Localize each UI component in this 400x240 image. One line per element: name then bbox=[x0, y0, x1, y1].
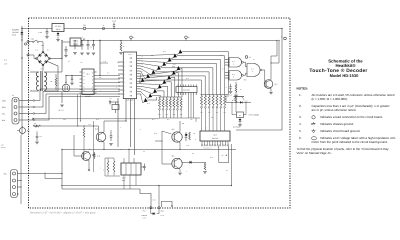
wire +V rail drop at x277 bbox=[271, 41, 277, 64]
capacitor C44 near gates bbox=[229, 84, 231, 91]
crystal Y1 near U2 bbox=[112, 105, 119, 110]
svg-text:TONE DEC: TONE DEC bbox=[183, 90, 190, 92]
svg-text:IC-4: IC-4 bbox=[251, 69, 254, 71]
svg-text:TP1: TP1 bbox=[83, 24, 86, 27]
zener diode D90 below border bbox=[150, 209, 152, 214]
wire Q3 emitter down bbox=[103, 142, 105, 149]
wire regulator output +5V rail bbox=[64, 28, 83, 30]
diode D43 below relay bbox=[239, 118, 241, 120]
svg-text:Heathkit®: Heathkit® bbox=[335, 63, 356, 68]
wire long horizontal mid-bottom bbox=[62, 148, 236, 150]
wires chain B feed from U2 pins bbox=[141, 94, 143, 103]
wire U-loop below IC3 bbox=[219, 146, 229, 163]
wire x21 bottom vertical bbox=[20, 135, 22, 204]
svg-text:C-51: C-51 bbox=[186, 145, 189, 147]
svg-text:+12: +12 bbox=[80, 62, 83, 64]
svg-text:Q-8: Q-8 bbox=[230, 94, 233, 96]
svg-text:Indicates circuit board ground: Indicates circuit board ground. bbox=[320, 129, 360, 133]
resistor bank R31-R37 bbox=[201, 94, 229, 96]
NAND gate IC4B bbox=[229, 71, 242, 81]
capacitor C101 at regulator input bbox=[46, 29, 49, 37]
wire long feedback y118.8 bbox=[33, 118, 160, 120]
svg-text:are in pF, unless otherwise no: are in pF, unless otherwise noted. bbox=[312, 108, 357, 112]
wire T1 secondary top lead bbox=[44, 71, 62, 73]
svg-text:R-31: R-31 bbox=[96, 119, 99, 121]
NAND gate IC4C bbox=[247, 64, 260, 77]
capacitor C103 below rail bbox=[74, 41, 77, 50]
svg-text:D-11: D-11 bbox=[163, 51, 166, 53]
wire bridge bottom to T1 bbox=[42, 65, 44, 71]
test point TP1 circle bbox=[83, 27, 86, 30]
svg-text:D-1: D-1 bbox=[36, 50, 38, 52]
switch SW1 on AC line bbox=[29, 41, 33, 43]
transistor Q6 bbox=[172, 158, 182, 168]
fuse F1 marks bbox=[24, 43, 26, 45]
svg-text:IC-3: IC-3 bbox=[213, 134, 216, 137]
svg-text:D-2: D-2 bbox=[47, 50, 49, 52]
node AC input junction bbox=[21, 28, 23, 30]
svg-text:IC-102: IC-102 bbox=[73, 40, 78, 43]
svg-text:1.: 1. bbox=[299, 93, 302, 97]
svg-text:10k: 10k bbox=[216, 112, 218, 114]
wire relay loop left bbox=[232, 102, 237, 114]
svg-text:Indicates a lead connection to: Indicates a lead connection to the circu… bbox=[320, 115, 383, 119]
svg-text:3.: 3. bbox=[299, 115, 302, 119]
svg-text:16: 16 bbox=[194, 133, 196, 135]
svg-text:13: 13 bbox=[253, 59, 255, 61]
svg-text:443-1023: 443-1023 bbox=[126, 99, 133, 102]
svg-text:D-2x: D-2x bbox=[147, 103, 150, 105]
svg-text:330: 330 bbox=[151, 55, 154, 57]
ground below Q6 bbox=[179, 169, 181, 172]
wire vertical x93.5 with capacitor C33 bbox=[93, 121, 95, 153]
svg-text:YEL: YEL bbox=[2, 112, 5, 115]
wires chain A feed from U2 pins bbox=[139, 74, 142, 83]
wire step to border junction bbox=[140, 189, 151, 207]
capacitor C106 hanging at rail top bbox=[113, 23, 115, 29]
capacitor C104 below rail bbox=[81, 41, 84, 50]
transistor Q8 flat symbol bbox=[234, 96, 245, 98]
wire input bus line 2 bbox=[35, 92, 120, 108]
diode D102 below regulator bbox=[57, 32, 59, 34]
resistor R51 bbox=[189, 132, 191, 140]
connector J1 phone line with pins 1-4 bbox=[12, 98, 19, 125]
wire T1 primary top lead bbox=[30, 71, 39, 73]
svg-text:D-6: D-6 bbox=[192, 153, 194, 155]
svg-text:View” on Manual Page 41.: View” on Manual Page 41. bbox=[297, 151, 332, 155]
svg-text:4.: 4. bbox=[299, 122, 302, 126]
svg-text:+5.1 V: +5.1 V bbox=[58, 109, 65, 112]
svg-text:Q-3: Q-3 bbox=[95, 128, 98, 131]
diode D51 blob bbox=[185, 134, 188, 136]
svg-text:J1: J1 bbox=[12, 94, 14, 97]
svg-text:2.2k: 2.2k bbox=[180, 114, 183, 116]
wire TB pin1 long horizontal bbox=[17, 173, 62, 175]
svg-text:5.: 5. bbox=[299, 129, 302, 133]
wire x159 to border bbox=[158, 186, 160, 208]
wire Q5 emitter bbox=[179, 143, 181, 150]
svg-text:(k = 1,000; M = 1,000,000).: (k = 1,000; M = 1,000,000). bbox=[312, 97, 348, 101]
wire +V rail from IC102 bbox=[81, 40, 277, 42]
oscillator module box bbox=[121, 163, 141, 175]
wire input bus line 4 bbox=[35, 97, 120, 121]
capacitor C31 right of Q3 bbox=[110, 132, 113, 141]
terminal strip TB1 with 4 pins bbox=[11, 170, 18, 198]
resistor network RP3 DIP package bbox=[176, 87, 197, 93]
svg-text:T1: T1 bbox=[41, 68, 43, 71]
svg-text:2.2k: 2.2k bbox=[173, 114, 176, 116]
wire bottom loop down x62 bbox=[61, 149, 63, 189]
svg-text:R-52: R-52 bbox=[154, 133, 157, 135]
node circle on rail at x103 bbox=[102, 27, 104, 29]
svg-text:10k: 10k bbox=[224, 112, 226, 114]
svg-text:C: C bbox=[82, 36, 83, 38]
wire crystal link bbox=[110, 98, 118, 102]
NAND gate IC4A bbox=[229, 58, 242, 68]
node pad on border for AC line 2 bbox=[27, 54, 29, 56]
svg-text:R-9: R-9 bbox=[167, 119, 169, 121]
svg-text:IC-1: IC-1 bbox=[86, 72, 89, 75]
transformer T1 bbox=[36, 72, 38, 77]
wire base bus x162 bbox=[155, 131, 162, 141]
svg-text:220: 220 bbox=[211, 117, 214, 119]
svg-text:4.7k: 4.7k bbox=[88, 124, 91, 126]
wire bridge right to node x62 bbox=[50, 58, 63, 60]
svg-text:SEE: SEE bbox=[1, 145, 4, 147]
node pads at border for J1 wires bbox=[33, 100, 35, 102]
ground below R41 bbox=[234, 95, 238, 97]
wire TB pin3 stub bbox=[17, 186, 21, 188]
ground below D102 bbox=[56, 39, 60, 41]
wire from bridge to IC102 bbox=[62, 42, 70, 59]
voltage regulator IC101 bbox=[52, 24, 64, 32]
circled node B on +V rail bbox=[185, 36, 188, 39]
wire U2 bottom pin c bbox=[134, 99, 136, 155]
capacitor C7 bbox=[36, 133, 39, 141]
wire AC line 1 to bridge top bbox=[39, 42, 44, 52]
wire Q4 emitter to pad bbox=[88, 161, 90, 170]
circled +5 node above gate bbox=[245, 56, 248, 59]
svg-text:2.2k: 2.2k bbox=[158, 114, 161, 116]
wires from chain D11-D18 to resistor bank RP2 bbox=[144, 80, 201, 95]
svg-text:R-42: R-42 bbox=[232, 100, 235, 102]
capacitor C3 bbox=[71, 76, 73, 83]
svg-text:10k: 10k bbox=[200, 112, 202, 114]
svg-text:2.2: 2.2 bbox=[90, 46, 92, 48]
svg-text:Received 12-87 – kit #1434: Received 12-87 – kit #1434 – aligned 12-… bbox=[30, 212, 96, 215]
potentiometer R5 below J1 bbox=[20, 128, 26, 134]
wire Q7 collector to +V rail bbox=[271, 41, 279, 80]
capacitor C102 bbox=[65, 46, 68, 55]
ground below relay bbox=[238, 125, 242, 127]
svg-text:NOTES:: NOTES: bbox=[297, 86, 309, 90]
svg-text:NOTE 3: NOTE 3 bbox=[1, 147, 6, 149]
svg-text:IC-4: IC-4 bbox=[232, 61, 235, 63]
wire D61 to resistor bbox=[192, 161, 205, 163]
wire input bus line 1 bbox=[35, 89, 120, 101]
svg-text:meter from the point indicated: meter from the point indicated to the ci… bbox=[312, 140, 388, 144]
svg-text:TB1: TB1 bbox=[4, 173, 7, 176]
wire U1 outputs to U2 pin wires bbox=[97, 75, 121, 77]
svg-text:T: T bbox=[31, 90, 32, 92]
svg-text:IC-4: IC-4 bbox=[232, 74, 235, 76]
svg-text:C: C bbox=[252, 71, 253, 73]
voltage regulator IC102 bbox=[70, 38, 81, 46]
svg-text:Model HD-1530: Model HD-1530 bbox=[330, 73, 359, 78]
latch IC3 with bottom pins bbox=[200, 131, 230, 141]
capacitor C73 right of oscillator bbox=[141, 166, 145, 168]
svg-text:1 2 3 4 5 6 7 8: 1 2 3 4 5 6 7 8 bbox=[203, 148, 212, 150]
svg-text:B: B bbox=[233, 76, 234, 78]
svg-text:2.: 2. bbox=[299, 104, 302, 108]
wire vertical x45 step bbox=[45, 173, 62, 179]
resistor R72 bbox=[113, 161, 115, 172]
wire relay feed horizontal bbox=[226, 101, 251, 103]
wire TB pin2 stub bbox=[17, 180, 21, 182]
wire AC line 2 to bridge left bbox=[29, 54, 34, 56]
wire AC input vertical bbox=[21, 26, 23, 135]
resistor R43 above relay bbox=[235, 96, 237, 102]
svg-text:IC-101: IC-101 bbox=[55, 25, 60, 28]
capacitor C105 below rail bbox=[87, 41, 90, 50]
wire +5 drop x100 bbox=[99, 41, 101, 76]
svg-text:Q-7: Q-7 bbox=[275, 83, 278, 86]
svg-text:IC-4: IC-4 bbox=[220, 55, 223, 57]
wire input bus line 3 bbox=[35, 94, 120, 114]
wire bank1 collector bus bbox=[160, 117, 201, 119]
svg-text:.02: .02 bbox=[143, 151, 145, 153]
resistor R4 to Q4 base bbox=[83, 128, 85, 137]
diode D42 on relay feed bbox=[240, 101, 242, 103]
svg-text:Q-5: Q-5 bbox=[172, 128, 175, 131]
resistor R3 on base line bbox=[36, 125, 38, 127]
resistor R61 bbox=[204, 162, 206, 170]
wire hook jumper over border bbox=[162, 202, 173, 208]
svg-text:10k: 10k bbox=[99, 77, 102, 79]
decoder IC2 with pin stubs and pin numbers bbox=[123, 52, 136, 99]
op-amp IC1 (preamp) bbox=[82, 69, 94, 95]
transistor Q7 bbox=[264, 80, 273, 89]
svg-text:14: 14 bbox=[205, 128, 207, 130]
svg-text:R-8: R-8 bbox=[152, 119, 154, 121]
diode D61 bbox=[190, 161, 192, 164]
cap marks on rail at x84 bbox=[82, 38, 84, 40]
svg-text:18: 18 bbox=[117, 62, 119, 64]
wire IC4B out to IC4C bbox=[243, 73, 247, 75]
wire U2 bottom pin a bbox=[125, 99, 127, 121]
resistor R71 bbox=[107, 161, 109, 172]
relay K1 coil box bbox=[237, 112, 244, 118]
wire Q7 emitter to ground bbox=[270, 89, 272, 92]
ground below Q7 bbox=[269, 92, 273, 94]
node pad on border for AC line 1 bbox=[27, 41, 29, 43]
wire IC4A out to IC4C bbox=[243, 62, 247, 67]
svg-text:C-101: C-101 bbox=[38, 32, 42, 34]
capacitor C51 right of Q5 bbox=[185, 132, 188, 141]
wire left osc frame bbox=[105, 158, 120, 176]
wire +12V feed to regulator bbox=[22, 28, 52, 30]
circled node A on +V rail bbox=[130, 36, 133, 39]
dashed schematic boundary border bbox=[29, 18, 291, 208]
wire IC4C output to Q7 base bbox=[262, 70, 265, 84]
svg-text:10k: 10k bbox=[34, 123, 36, 125]
capacitor C2 electrolytic bbox=[62, 84, 70, 92]
svg-text:IC-4: IC-4 bbox=[222, 69, 225, 71]
svg-text:A: A bbox=[233, 63, 234, 65]
resistor R41 under gate IC4B bbox=[235, 82, 237, 85]
node power lower junction bbox=[21, 39, 22, 40]
ground symbol below C2 bbox=[60, 105, 64, 107]
svg-text:6.: 6. bbox=[299, 136, 302, 140]
svg-text:120 VAC: 120 VAC bbox=[12, 31, 19, 34]
wires RP3 bottom pins descend bbox=[187, 95, 189, 118]
svg-text:C-1: C-1 bbox=[68, 61, 70, 63]
svg-text:470: 470 bbox=[190, 119, 193, 121]
svg-text:R-2: R-2 bbox=[107, 73, 109, 75]
svg-text:R-61: R-61 bbox=[210, 157, 213, 159]
transistor Q3 bbox=[96, 132, 106, 142]
wire T1 secondary bottom lead bbox=[44, 90, 58, 92]
capacitor C41 bbox=[93, 152, 95, 159]
resistor R101 on +V rail bbox=[120, 43, 122, 52]
wire U2 bottom pin b bbox=[130, 99, 132, 147]
capacitor C105b below rail bbox=[92, 41, 95, 50]
wire U1 bottom pin drops bbox=[77, 95, 79, 127]
wire TB pin4 stub bbox=[17, 193, 19, 195]
svg-text:.005: .005 bbox=[63, 119, 66, 121]
svg-text:C-9: C-9 bbox=[120, 149, 122, 151]
resistor R1 vertical left bbox=[55, 78, 57, 86]
svg-text:78L12: 78L12 bbox=[56, 28, 61, 31]
wire Q3 collector up bbox=[103, 121, 105, 132]
wire Q4 base line y126 bbox=[33, 125, 99, 127]
transistor Q4 bbox=[82, 152, 91, 161]
diode matrix chain D21-D28 bbox=[144, 98, 148, 102]
svg-text:R-xx: R-xx bbox=[186, 78, 189, 80]
svg-text:2.2k: 2.2k bbox=[165, 114, 168, 116]
resistor bank R21-R27 bbox=[159, 96, 182, 98]
circled node C near right rail bbox=[284, 37, 287, 40]
diode D101 on AC input bbox=[21, 32, 24, 34]
bridge rectifier D1-D4 bbox=[37, 52, 50, 65]
wire relay loop right bbox=[244, 102, 247, 114]
svg-text:16: 16 bbox=[226, 170, 228, 172]
wire T1 primary bottom lead bbox=[30, 90, 39, 92]
wire bottom bus y185.5 bbox=[61, 185, 232, 187]
svg-text:443-821: 443-821 bbox=[85, 95, 91, 98]
wire Q4 base feed x74 bbox=[74, 135, 82, 156]
svg-text:10k: 10k bbox=[208, 112, 210, 114]
wire long vertical feed x62 bbox=[61, 41, 63, 59]
wire IC3 right vertical bbox=[231, 144, 233, 186]
svg-text:C-8: C-8 bbox=[104, 61, 106, 63]
wires from chain D21-D28 to resistor bank RP1 bbox=[147, 97, 156, 100]
wire +5 rail right side drop bbox=[236, 29, 282, 131]
svg-text:BR-1: BR-1 bbox=[41, 45, 44, 47]
wire Q5 collector up bbox=[179, 121, 181, 132]
node junction on border right bbox=[158, 207, 160, 209]
svg-text:SW1: SW1 bbox=[31, 39, 34, 41]
svg-text:Q-6: Q-6 bbox=[172, 154, 175, 157]
wire bottom bus y189 bbox=[62, 188, 140, 190]
transistor Q5 bbox=[172, 132, 182, 142]
wire osc pins top bbox=[123, 158, 125, 163]
node junction on border left bbox=[150, 207, 152, 209]
svg-text:Indicates chassis ground.: Indicates chassis ground. bbox=[320, 122, 354, 126]
wire osc pins bottom bbox=[123, 175, 125, 189]
diode matrix chain D11-D18 bbox=[141, 78, 145, 82]
svg-text:47: 47 bbox=[77, 45, 79, 47]
